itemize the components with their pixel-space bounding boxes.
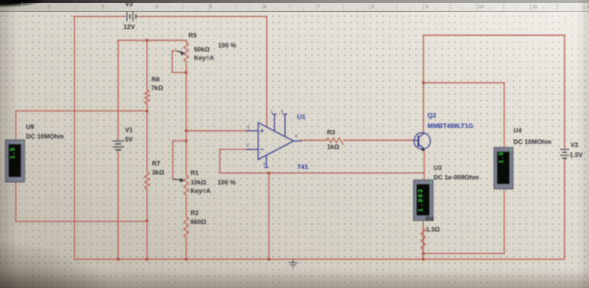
svg-text:U9: U9	[26, 124, 35, 131]
svg-text:7: 7	[318, 4, 321, 9]
svg-text:7kΩ: 7kΩ	[151, 85, 163, 92]
svg-text:Key=A: Key=A	[191, 188, 211, 195]
svg-text:50kΩ: 50kΩ	[194, 47, 210, 54]
svg-text:1.3Ω: 1.3Ω	[426, 227, 440, 234]
svg-text:V3: V3	[125, 1, 133, 8]
svg-text:9: 9	[426, 4, 429, 9]
svg-text:5: 5	[281, 109, 284, 114]
svg-text:R7: R7	[152, 161, 161, 168]
svg-text:V1: V1	[125, 127, 133, 134]
svg-text:1.5: 1.5	[498, 152, 505, 164]
svg-text:MMBT489LT1G: MMBT489LT1G	[428, 123, 474, 130]
svg-text:6: 6	[264, 4, 267, 9]
svg-text:8: 8	[372, 4, 375, 9]
svg-text:2: 2	[48, 4, 51, 9]
svg-text:U4: U4	[514, 128, 523, 135]
svg-text:100 %: 100 %	[218, 180, 236, 187]
svg-text:12V: 12V	[124, 24, 136, 31]
svg-text:U1: U1	[297, 114, 306, 121]
svg-text:100 %: 100 %	[218, 42, 236, 49]
svg-text:5: 5	[210, 4, 213, 9]
svg-text:741: 741	[297, 164, 309, 171]
svg-text:3: 3	[247, 125, 250, 130]
svg-text:660Ω: 660Ω	[191, 219, 207, 226]
svg-text:11: 11	[533, 4, 538, 9]
svg-text:1.5: 1.5	[9, 147, 16, 159]
svg-text:3kΩ: 3kΩ	[152, 170, 164, 177]
svg-text:U3: U3	[434, 165, 443, 172]
svg-text:DC 1e-009Ohm: DC 1e-009Ohm	[434, 175, 480, 182]
svg-text:R2: R2	[191, 210, 200, 217]
svg-text:1.5V: 1.5V	[570, 152, 584, 159]
svg-text:R6: R6	[152, 77, 161, 84]
svg-text:4: 4	[263, 161, 266, 166]
svg-text:DC 10MOhm: DC 10MOhm	[514, 139, 552, 146]
svg-text:10: 10	[479, 4, 484, 9]
svg-text:2: 2	[247, 143, 250, 148]
svg-text:Key=A: Key=A	[194, 55, 214, 62]
svg-text:1kΩ: 1kΩ	[327, 144, 339, 151]
svg-text:1: 1	[271, 109, 274, 114]
svg-text:DC 10MOhm: DC 10MOhm	[26, 133, 64, 140]
svg-text:1.003: 1.003	[418, 188, 425, 212]
svg-text:10kΩ: 10kΩ	[191, 180, 207, 187]
svg-text:R5: R5	[189, 33, 198, 40]
svg-text:6: 6	[295, 134, 298, 139]
svg-text:R4: R4	[426, 216, 435, 223]
svg-text:R1: R1	[191, 170, 200, 177]
svg-text:V2: V2	[571, 142, 579, 149]
svg-text:R3: R3	[327, 129, 336, 136]
svg-text:5V: 5V	[125, 137, 134, 144]
svg-text:Q2: Q2	[428, 112, 437, 119]
